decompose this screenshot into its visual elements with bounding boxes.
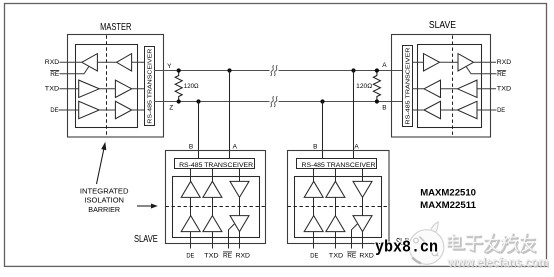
svg-text:www.elecfans.com: www.elecfans.com [446,255,548,269]
svg-text:RS-485 TRANSCEIVER: RS-485 TRANSCEIVER [147,49,153,124]
slave2 outer box [288,151,390,244]
wire RE slave top [466,66,497,74]
svg-text:RS-485 TRANSCEIVER: RS-485 TRANSCEIVER [179,162,253,169]
junction node A right [375,68,379,72]
watermark chinese characters dian zi fa shao you [448,234,536,253]
slave1 inner box [173,177,260,238]
svg-text:RXD: RXD [359,253,374,260]
svg-text:A: A [233,143,238,150]
svg-text:RE: RE [497,71,507,78]
svg-text:RS-485 TRANSCEIVER: RS-485 TRANSCEIVER [302,162,376,169]
wire drop A to slave2 [353,71,355,159]
master DE buffer 2 [115,101,131,118]
svg-text:B: B [313,143,317,150]
slave top DE buffer 1 [424,101,441,118]
svg-text:DE: DE [497,107,506,114]
wire drop B to slave1 [198,102,200,159]
junction node B right [375,99,379,103]
slave2 RS-485 transceiver label box [297,159,377,169]
slave2 isolation barrier dashed line [288,206,390,208]
wire RXD slave top [412,61,496,63]
svg-text:MASTER: MASTER [100,22,131,33]
slave1 pin wire DE column [190,169,192,249]
svg-text:RE: RE [50,71,60,78]
svg-text:DE: DE [310,253,319,260]
bus break marks bottom [271,96,274,107]
slave top RS-485 transceiver box [403,46,413,127]
svg-text:B: B [189,143,193,150]
svg-text:DE: DE [186,253,195,260]
slave2 wire RE [352,224,358,249]
wire drop A to slave1 [229,71,231,159]
wire drop B to slave2 [322,102,324,159]
svg-text:TXD: TXD [45,85,60,92]
wire RXD master [60,61,145,63]
svg-text:TXD: TXD [329,253,344,260]
slave2 inner box [295,177,382,238]
junction node slave1 B tap [196,99,200,103]
slave2 pin wire DE column [313,169,315,249]
slave1 driver buffer top mid [203,181,222,197]
svg-text:BARRIER: BARRIER [88,207,120,214]
bus wire B bottom left segment [154,101,270,103]
master DE buffer 1 [79,101,100,118]
svg-text:DE: DE [50,107,59,114]
master receiver buffer 1 [82,54,98,71]
svg-text:RXD: RXD [45,59,60,66]
svg-text:120Ω: 120Ω [356,83,372,90]
svg-text:MAXM22511: MAXM22511 [420,200,476,211]
wire TXD master [60,88,145,90]
slave1 pin wire RXD column [239,169,241,249]
svg-text:120Ω: 120Ω [184,83,199,90]
master driver buffer 2 [115,80,131,97]
junction node slave1 A tap [227,68,231,72]
svg-text:TXD: TXD [497,85,512,92]
svg-text:ybx8.cn: ybx8.cn [375,238,438,257]
svg-text:A: A [382,62,387,69]
slave1 driver buffer bottom left [181,216,200,232]
slave2 receiver buffer bottom right [353,216,372,232]
bus break marks top [271,65,274,76]
wire DE slave top [412,109,496,111]
master isolation barrier dashed line [106,35,108,136]
slave top outer box [392,35,491,138]
annotation arrow to master barrier [97,150,104,184]
svg-text:MAXM22510: MAXM22510 [420,187,476,198]
slave top receiver buffer 2 [458,54,474,71]
slave top DE buffer 2 [458,101,478,118]
svg-text:RE: RE [223,253,233,260]
resistor R1 120ohm [175,71,182,102]
svg-text:ISOLATION: ISOLATION [84,198,124,205]
slave top driver buffer 1 [424,80,441,97]
bus wire A top right segment [279,70,403,72]
svg-text:RXD: RXD [236,253,251,260]
slave2 driver buffer bottom mid [326,216,345,232]
annotation arrow to slave1 barrier [137,205,152,207]
slave2 receiver buffer top right [353,181,372,197]
slave1 driver buffer bottom mid [203,216,222,232]
slave2 driver buffer top mid [326,181,345,197]
master RS-485 transceiver box [145,47,155,126]
svg-text:RS-485 TRANSCEIVER: RS-485 TRANSCEIVER [406,48,412,125]
wire RE master [60,66,90,74]
svg-text:B: B [382,105,386,112]
slave1 receiver buffer bottom right [230,216,249,232]
slave1 receiver buffer top right [230,181,249,197]
slave top isolation barrier dashed line [452,36,454,137]
svg-text:TXD: TXD [204,253,219,260]
master receiver buffer 2 [117,54,132,71]
svg-text:RE: RE [347,253,357,260]
slave1 wire RE [229,224,235,249]
master outer box [68,35,164,138]
slave2 pin wire TXD column [335,169,337,249]
junction node Z [177,99,181,103]
junction node slave2 A tap [351,68,355,72]
bus wire B bottom right segment [279,101,403,103]
slave1 RS-485 transceiver label box [175,159,255,169]
wire TXD slave top [412,88,496,90]
bus wire A top left segment [154,70,270,72]
svg-text:SLAVE: SLAVE [134,234,158,245]
slave1 outer box [166,151,266,244]
svg-text:Z: Z [169,105,173,112]
slave top receiver buffer 1 [424,54,440,71]
resistor R2 120ohm [373,71,380,102]
slave2 driver buffer bottom left [304,216,323,232]
svg-text:Y: Y [167,63,172,70]
slave1 pin wire TXD column [212,169,214,249]
master driver buffer 1 [79,80,100,97]
slave top driver buffer 2 [458,80,478,97]
watermark balloon logo [409,222,444,264]
slave2 driver buffer top left [304,181,323,197]
svg-text:INTEGRATED: INTEGRATED [80,188,129,195]
svg-text:SLAVE: SLAVE [429,20,456,31]
slave1 driver buffer top left [181,181,200,197]
junction node Y [177,68,181,72]
slave1 isolation barrier dashed line [166,206,266,208]
slave top inner box [418,45,482,128]
wire DE master [59,109,145,111]
master inner box [76,45,138,128]
svg-text:RXD: RXD [497,59,512,66]
slave2 pin wire RXD column [362,169,364,249]
junction node slave2 B tap [320,99,324,103]
svg-text:A: A [354,143,359,150]
